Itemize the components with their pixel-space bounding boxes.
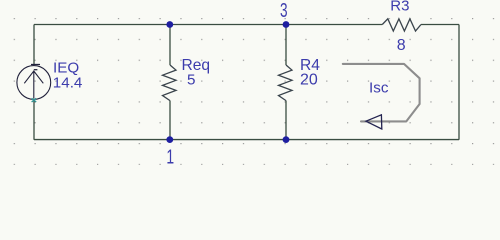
svg-text:R3: R3: [390, 0, 409, 14]
svg-text:5: 5: [187, 72, 195, 89]
svg-text:14.4: 14.4: [53, 75, 83, 92]
svg-text:8: 8: [397, 37, 406, 54]
svg-text:Isc: Isc: [369, 79, 389, 96]
svg-text:3: 3: [280, 0, 288, 22]
svg-text:20: 20: [300, 72, 318, 89]
svg-text:1: 1: [166, 145, 174, 165]
svg-text:Req: Req: [182, 57, 211, 74]
